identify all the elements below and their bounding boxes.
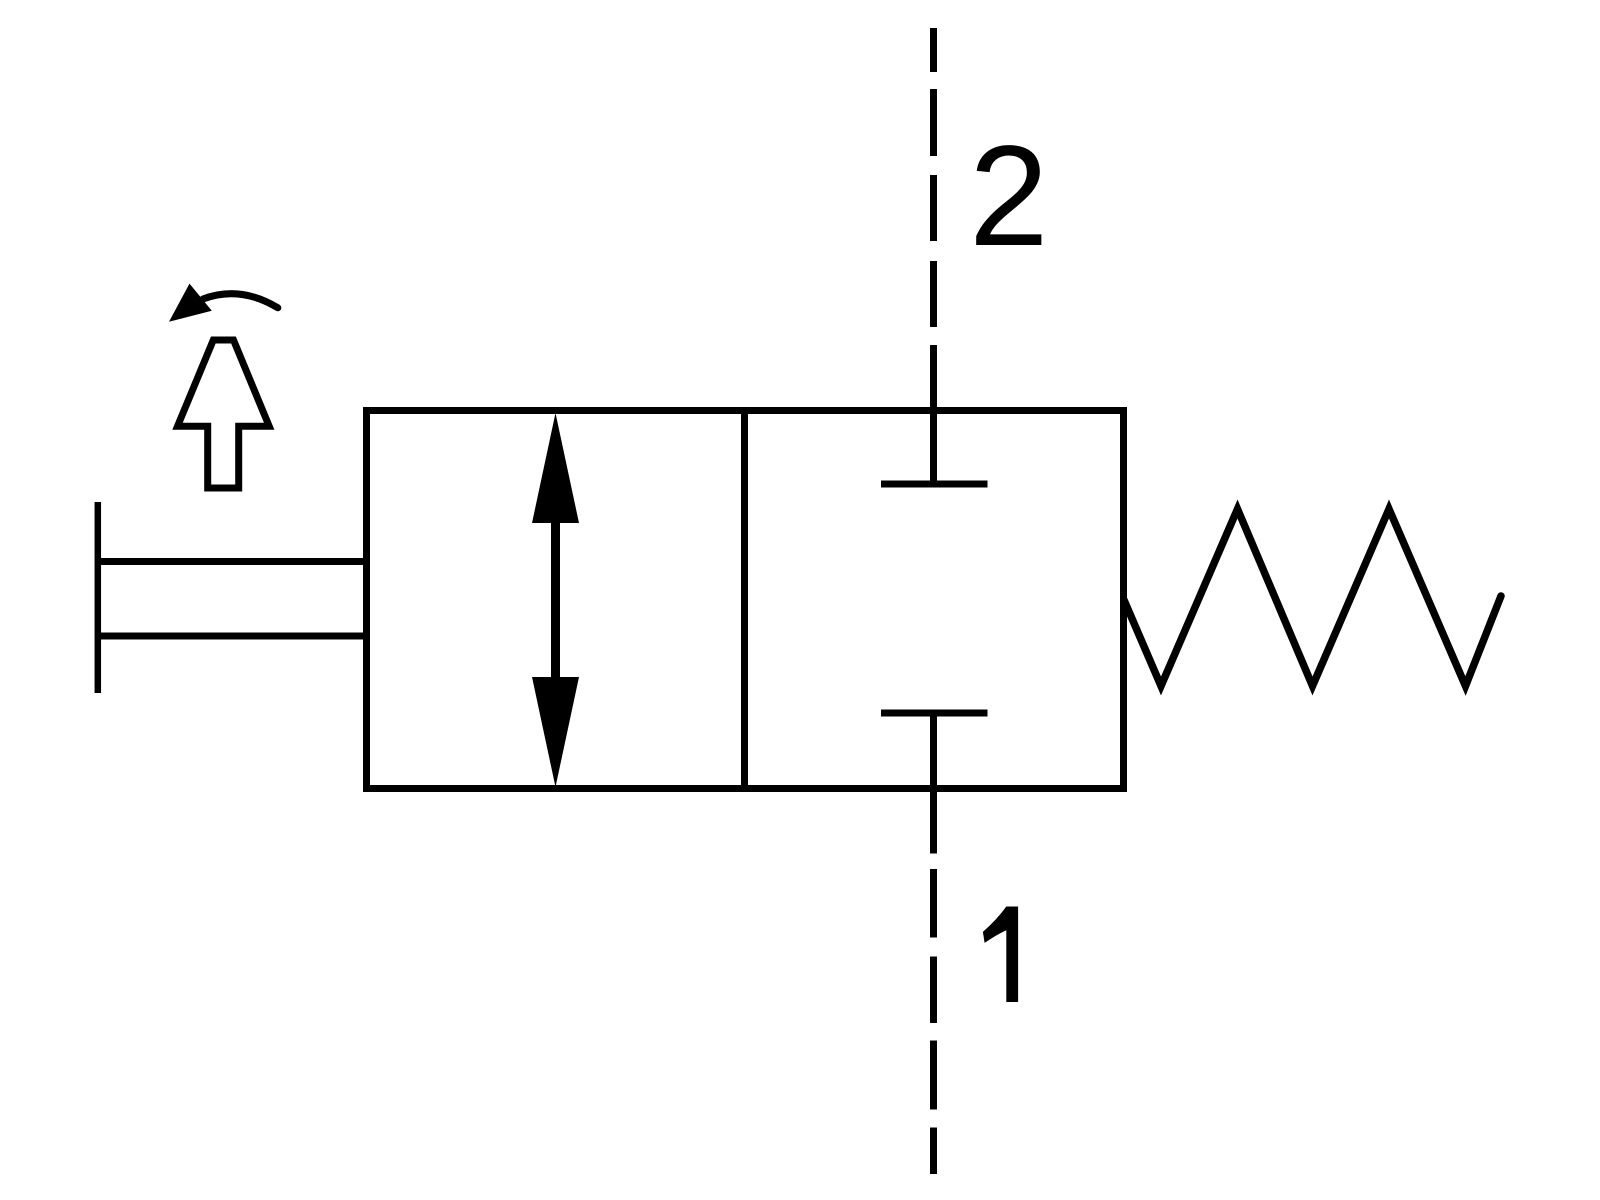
svg-text:2: 2: [969, 117, 1049, 276]
push rod: [97, 558, 366, 565]
rod end bar: [95, 502, 102, 693]
position divider: [741, 407, 748, 792]
flow arrow (left position, double-headed vertical): [532, 413, 579, 787]
return spring: [1124, 509, 1501, 686]
rotation arrow (curved, counterclockwise): [203, 294, 278, 308]
label 1: [983, 907, 1018, 1003]
port 1 blocked symbol (T bar): [881, 710, 988, 717]
valve body outline: [367, 411, 1124, 789]
port 1 line (dashed, bottom): [930, 713, 937, 1174]
port 2 line (dashed, top): [930, 28, 937, 484]
lever arrow (hollow, pointing up): [178, 340, 270, 488]
port 2 blocked symbol (T bar): [881, 481, 988, 488]
